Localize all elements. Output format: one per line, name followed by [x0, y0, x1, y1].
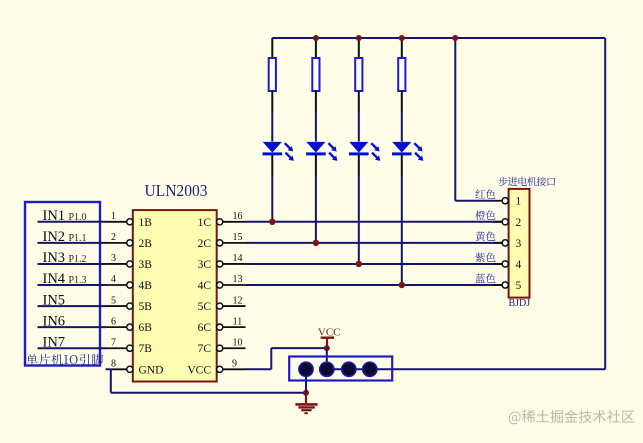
svg-text:9: 9 [232, 358, 237, 369]
svg-text:6: 6 [111, 316, 116, 327]
svg-text:P1.2: P1.2 [69, 254, 87, 265]
svg-text:15: 15 [233, 232, 243, 243]
svg-text:7C: 7C [198, 343, 212, 355]
svg-text:16: 16 [233, 211, 243, 222]
svg-text:IN2: IN2 [43, 229, 66, 245]
svg-text:13: 13 [233, 274, 243, 285]
svg-text:3C: 3C [198, 259, 212, 271]
svg-text:1B: 1B [139, 217, 153, 229]
svg-text:5B: 5B [139, 301, 153, 313]
svg-text:7: 7 [111, 337, 116, 348]
svg-text:8: 8 [111, 358, 116, 369]
svg-text:2C: 2C [198, 238, 212, 250]
svg-text:IN3: IN3 [43, 250, 66, 266]
svg-text:4: 4 [111, 274, 116, 285]
svg-text:BJDJ: BJDJ [508, 298, 530, 309]
svg-text:ULN2003: ULN2003 [145, 181, 208, 200]
svg-text:7B: 7B [139, 343, 153, 355]
svg-text:2: 2 [111, 232, 116, 243]
svg-text:2: 2 [516, 217, 522, 229]
svg-text:IN5: IN5 [43, 292, 66, 308]
svg-text:10: 10 [233, 337, 243, 348]
svg-text:4: 4 [516, 259, 522, 271]
svg-text:VCC: VCC [318, 326, 341, 338]
svg-text:P1.3: P1.3 [69, 275, 87, 286]
svg-text:14: 14 [233, 253, 243, 264]
svg-text:1: 1 [516, 196, 522, 208]
svg-text:IN1: IN1 [43, 208, 66, 224]
svg-text:5: 5 [516, 280, 522, 292]
svg-text:4B: 4B [139, 280, 153, 292]
svg-text:3: 3 [516, 238, 522, 250]
svg-text:3: 3 [111, 253, 116, 264]
svg-text:3B: 3B [139, 259, 153, 271]
svg-text:6B: 6B [139, 322, 153, 334]
svg-text:IN6: IN6 [43, 313, 66, 329]
svg-text:4C: 4C [198, 280, 212, 292]
svg-text:VCC: VCC [187, 364, 211, 376]
svg-text:2B: 2B [139, 238, 153, 250]
svg-text:1C: 1C [198, 217, 212, 229]
svg-text:5: 5 [111, 295, 116, 306]
svg-text:12: 12 [233, 295, 243, 306]
svg-text:P1.0: P1.0 [69, 212, 87, 223]
svg-text:1: 1 [111, 211, 116, 222]
svg-text:5C: 5C [198, 301, 212, 313]
svg-text:IN4: IN4 [43, 271, 66, 287]
svg-text:GND: GND [139, 364, 164, 376]
svg-text:11: 11 [233, 316, 243, 327]
svg-text:P1.1: P1.1 [69, 233, 87, 244]
svg-text:IN7: IN7 [43, 334, 66, 350]
svg-text:6C: 6C [198, 322, 212, 334]
